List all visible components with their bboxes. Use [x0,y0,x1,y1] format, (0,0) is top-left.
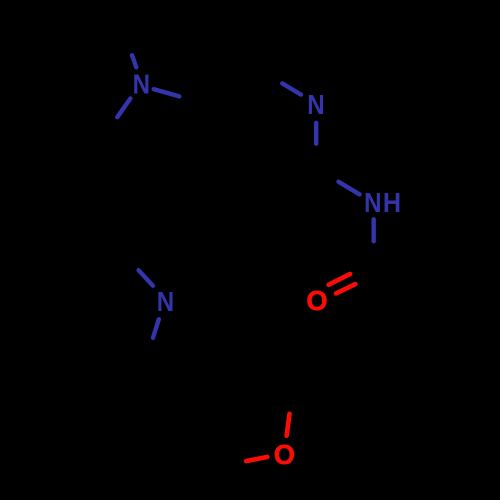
svg-text:O: O [306,285,327,316]
svg-text:O: O [274,439,295,470]
svg-text:N: N [157,286,174,317]
svg-text:N: N [364,187,381,218]
svg-text:N: N [307,89,324,120]
svg-text:N: N [133,68,150,99]
svg-text:H: H [383,187,401,218]
